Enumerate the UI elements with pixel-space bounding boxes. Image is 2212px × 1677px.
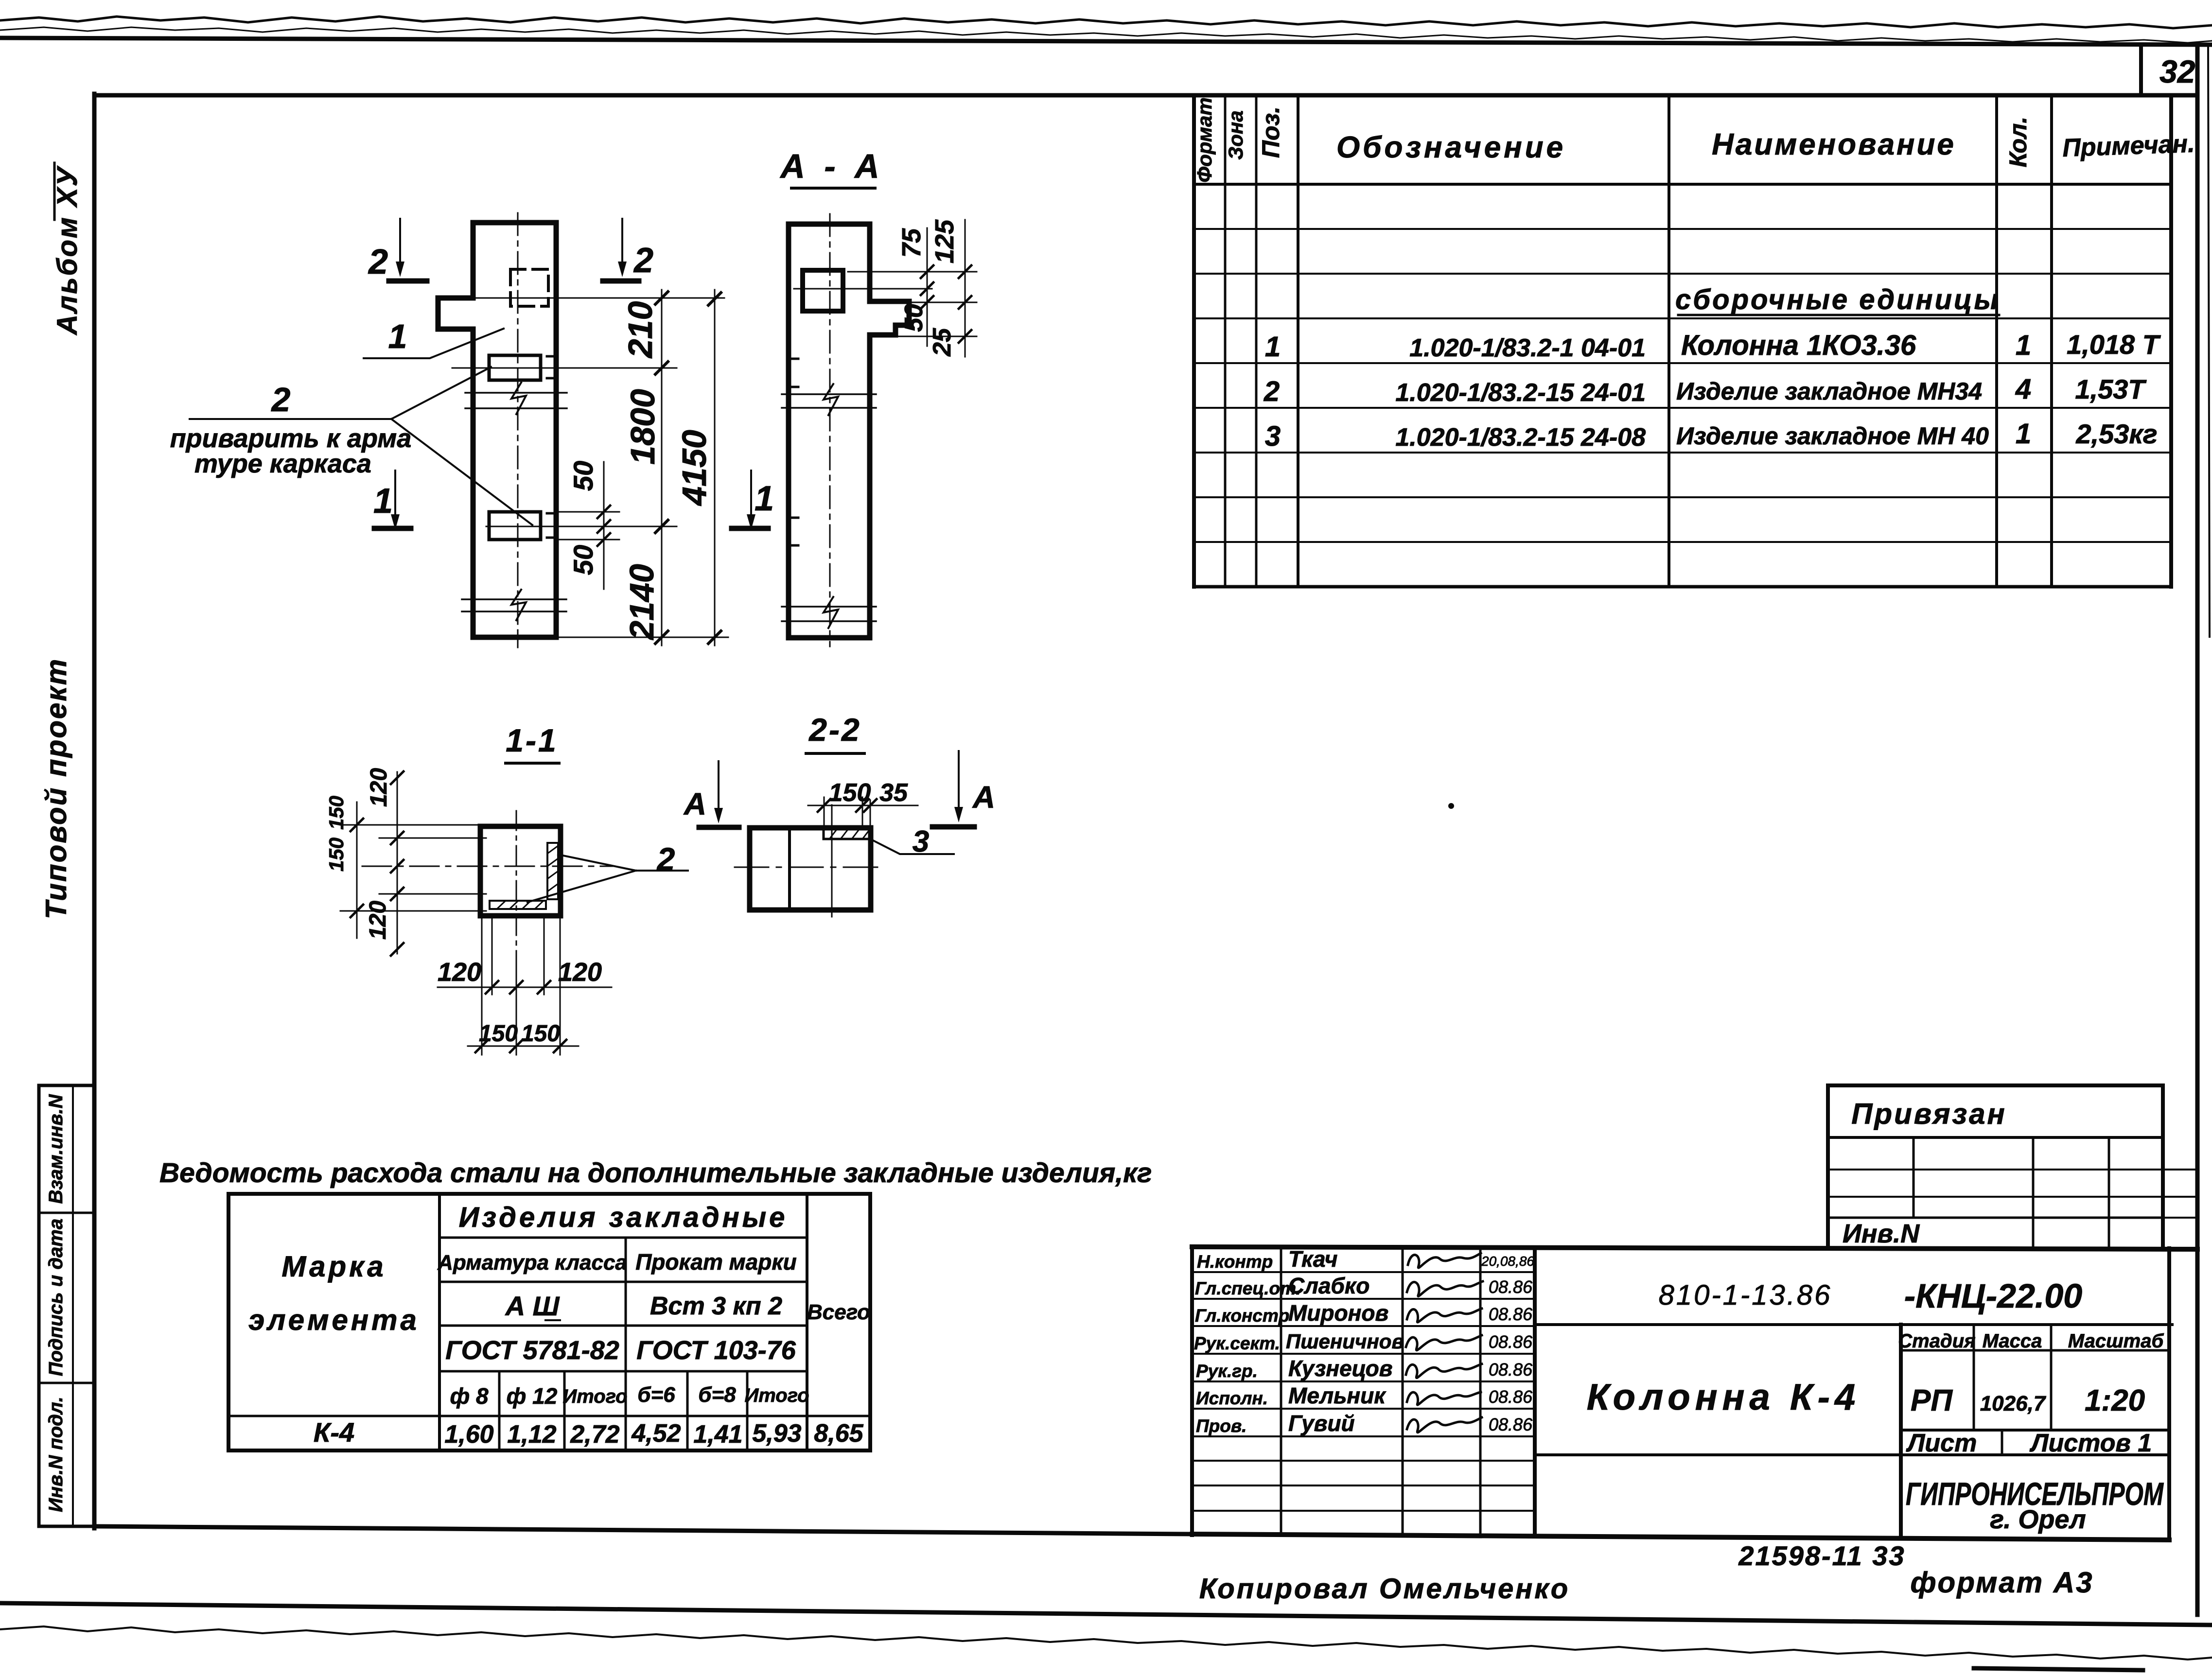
- svg-text:Рук.гр.: Рук.гр.: [1196, 1361, 1258, 1381]
- svg-text:120: 120: [558, 958, 602, 987]
- svg-text:Итого: Итого: [562, 1386, 627, 1407]
- svg-text:2,72: 2,72: [570, 1420, 619, 1449]
- svg-text:туре каркаса: туре каркаса: [194, 449, 371, 478]
- svg-text:Взам.инв.N: Взам.инв.N: [45, 1094, 67, 1204]
- svg-text:150: 150: [479, 1021, 518, 1047]
- svg-text:120: 120: [365, 901, 391, 940]
- svg-text:2-2: 2-2: [808, 712, 861, 748]
- svg-text:Ведомость расхода стали на доп: Ведомость расхода стали на дополнительны…: [159, 1157, 1152, 1188]
- svg-text:4: 4: [2015, 373, 2031, 405]
- svg-text:Итого: Итого: [744, 1385, 809, 1406]
- svg-text:810-1-13.86: 810-1-13.86: [1659, 1279, 1832, 1311]
- svg-text:А Ш: А Ш: [505, 1291, 560, 1321]
- svg-text:1: 1: [755, 479, 774, 518]
- svg-text:Типовой проект: Типовой проект: [40, 658, 72, 919]
- svg-text:Исполн.: Исполн.: [1196, 1388, 1268, 1408]
- svg-text:Гл.констр: Гл.констр: [1195, 1306, 1289, 1326]
- svg-text:1: 1: [1265, 331, 1281, 363]
- svg-text:Гувий: Гувий: [1288, 1411, 1355, 1436]
- svg-text:Марка: Марка: [281, 1250, 386, 1283]
- svg-text:1,41: 1,41: [693, 1420, 742, 1449]
- svg-text:Слабко: Слабко: [1288, 1273, 1369, 1298]
- svg-text:Колонна К-4: Колонна К-4: [1587, 1377, 1860, 1418]
- svg-text:Привязан: Привязан: [1851, 1098, 2006, 1130]
- svg-text:Вст 3 кп 2: Вст 3 кп 2: [650, 1292, 782, 1320]
- svg-text:Инв.N: Инв.N: [1843, 1219, 1920, 1248]
- svg-text:150: 150: [521, 1021, 560, 1047]
- svg-text:150: 150: [325, 838, 348, 872]
- svg-text:08.86: 08.86: [1489, 1387, 1533, 1407]
- svg-text:1: 1: [2016, 330, 2031, 361]
- svg-text:ГОСТ 5781-82: ГОСТ 5781-82: [445, 1336, 619, 1365]
- svg-text:Прокат марки: Прокат марки: [635, 1249, 797, 1275]
- svg-text:Подпись и дата: Подпись и дата: [45, 1219, 67, 1376]
- svg-text:1800: 1800: [624, 389, 662, 465]
- svg-text:Формат: Формат: [1193, 97, 1216, 182]
- svg-text:Наименование: Наименование: [1712, 128, 1956, 161]
- svg-text:125: 125: [930, 219, 959, 263]
- svg-text:А - А: А - А: [779, 147, 884, 185]
- svg-text:элемента: элемента: [248, 1304, 420, 1336]
- svg-text:1,53Т: 1,53Т: [2075, 374, 2147, 404]
- svg-text:Альбом ХУ: Альбом ХУ: [52, 165, 83, 335]
- svg-text:4150: 4150: [675, 430, 713, 507]
- svg-text:А: А: [972, 780, 995, 815]
- svg-text:1,018 Т: 1,018 Т: [2067, 329, 2161, 360]
- svg-text:Зона: Зона: [1224, 110, 1247, 159]
- svg-text:ф 8: ф 8: [450, 1383, 488, 1409]
- svg-text:Стадия: Стадия: [1898, 1330, 1975, 1352]
- svg-text:ф 12: ф 12: [507, 1383, 558, 1409]
- svg-text:б=8: б=8: [698, 1383, 736, 1407]
- svg-text:Всего: Всего: [807, 1300, 870, 1324]
- svg-text:2: 2: [633, 241, 653, 280]
- svg-text:32: 32: [2159, 53, 2195, 89]
- svg-text:Изделие закладное МН 40: Изделие закладное МН 40: [1676, 422, 1989, 450]
- svg-text:50: 50: [568, 545, 598, 575]
- svg-text:150: 150: [829, 779, 871, 807]
- svg-text:Изделия закладные: Изделия закладные: [459, 1202, 788, 1233]
- svg-text:1,60: 1,60: [444, 1420, 493, 1449]
- svg-text:08.86: 08.86: [1489, 1277, 1533, 1297]
- svg-text:2: 2: [368, 243, 388, 281]
- svg-text:1: 1: [373, 482, 393, 521]
- svg-text:Кол.: Кол.: [2004, 117, 2032, 167]
- svg-text:75: 75: [897, 228, 926, 258]
- svg-text:г. Орел: г. Орел: [1990, 1505, 2086, 1534]
- svg-text:-КНЦ-22.00: -КНЦ-22.00: [1904, 1277, 2082, 1315]
- svg-text:1: 1: [388, 317, 407, 355]
- svg-text:Пшеничнов: Пшеничнов: [1286, 1330, 1404, 1353]
- svg-text:Изделие закладное МН34: Изделие закладное МН34: [1676, 378, 1982, 405]
- svg-text:120: 120: [438, 958, 481, 987]
- svg-text:Н.контр: Н.контр: [1197, 1252, 1273, 1272]
- svg-text:Поз.: Поз.: [1257, 106, 1284, 158]
- svg-text:1:20: 1:20: [2085, 1384, 2145, 1417]
- svg-text:Рук.сект.: Рук.сект.: [1194, 1333, 1280, 1353]
- svg-text:20,08,86: 20,08,86: [1481, 1254, 1534, 1269]
- svg-text:б=6: б=6: [637, 1383, 675, 1407]
- svg-text:210: 210: [621, 301, 659, 359]
- svg-text:4,52: 4,52: [631, 1419, 681, 1448]
- svg-text:Пров.: Пров.: [1196, 1416, 1246, 1436]
- svg-text:08.86: 08.86: [1489, 1304, 1533, 1324]
- svg-text:Арматура класса: Арматура класса: [437, 1251, 627, 1275]
- svg-text:5,93: 5,93: [752, 1419, 801, 1448]
- svg-text:21598-11 33: 21598-11 33: [1738, 1540, 1905, 1571]
- svg-text:Примечан.: Примечан.: [2062, 130, 2195, 162]
- svg-text:Лист: Лист: [1906, 1429, 1977, 1457]
- svg-text:Гл.спец.от.: Гл.спец.от.: [1195, 1278, 1301, 1298]
- svg-text:1026,7: 1026,7: [1980, 1392, 2047, 1415]
- svg-text:РП: РП: [1911, 1384, 1953, 1417]
- svg-text:А: А: [683, 786, 706, 821]
- svg-text:Копировал Омельченко: Копировал Омельченко: [1199, 1573, 1570, 1605]
- svg-text:35: 35: [879, 779, 908, 807]
- svg-text:120: 120: [366, 768, 392, 807]
- svg-text:50: 50: [568, 461, 598, 491]
- svg-text:2: 2: [271, 381, 291, 419]
- svg-text:08.86: 08.86: [1489, 1360, 1533, 1380]
- svg-text:Масштаб: Масштаб: [2068, 1330, 2164, 1352]
- svg-text:приварить к арма: приварить к арма: [170, 424, 412, 453]
- svg-text:Обозначение: Обозначение: [1336, 131, 1566, 164]
- svg-text:1,12: 1,12: [507, 1420, 556, 1449]
- svg-text:1.020-1/83.2-1 04-01: 1.020-1/83.2-1 04-01: [1409, 334, 1646, 362]
- svg-text:Миронов: Миронов: [1288, 1300, 1388, 1326]
- svg-text:3: 3: [1265, 420, 1281, 452]
- svg-text:Кузнецов: Кузнецов: [1288, 1356, 1393, 1381]
- svg-text:ГОСТ 103-76: ГОСТ 103-76: [636, 1336, 796, 1365]
- svg-text:Колонна 1КО3.36: Колонна 1КО3.36: [1681, 330, 1916, 361]
- svg-text:Масса: Масса: [1983, 1330, 2042, 1352]
- svg-text:Мельник: Мельник: [1288, 1383, 1387, 1408]
- svg-text:1: 1: [2016, 418, 2031, 450]
- svg-text:150: 150: [325, 796, 348, 830]
- svg-text:25: 25: [928, 328, 956, 357]
- svg-text:Инв.N подл.: Инв.N подл.: [45, 1397, 67, 1512]
- svg-text:формат А3: формат А3: [1910, 1566, 2093, 1599]
- svg-text:08.86: 08.86: [1489, 1332, 1533, 1352]
- svg-text:2: 2: [1264, 376, 1280, 407]
- svg-text:Листов 1: Листов 1: [2029, 1429, 2152, 1457]
- svg-text:сборочные единицы: сборочные единицы: [1675, 284, 2000, 315]
- svg-text:2,53кг: 2,53кг: [2075, 419, 2157, 449]
- svg-text:1.020-1/83.2-15 24-01: 1.020-1/83.2-15 24-01: [1395, 379, 1646, 407]
- svg-text:Ткач: Ткач: [1288, 1246, 1337, 1272]
- svg-text:1.020-1/83.2-15 24-08: 1.020-1/83.2-15 24-08: [1395, 423, 1646, 452]
- svg-text:К-4: К-4: [314, 1417, 354, 1448]
- svg-text:50: 50: [900, 304, 928, 332]
- svg-text:08.86: 08.86: [1489, 1415, 1533, 1434]
- svg-text:1-1: 1-1: [506, 722, 558, 758]
- svg-text:2140: 2140: [623, 564, 661, 641]
- svg-text:8,65: 8,65: [814, 1419, 863, 1448]
